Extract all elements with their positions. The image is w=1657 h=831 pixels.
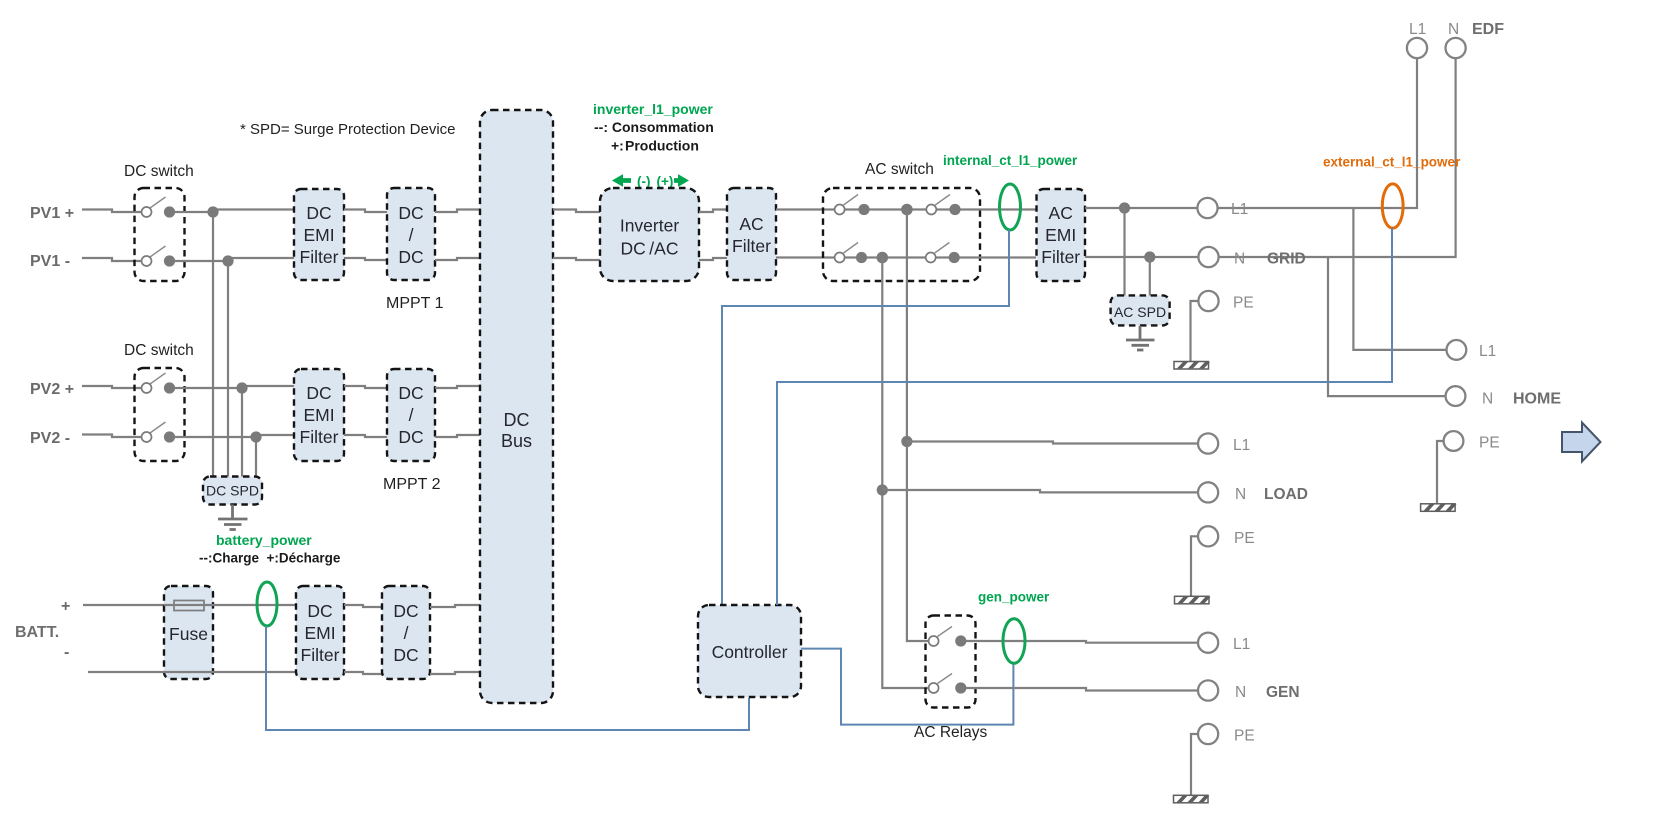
wire GRID PE to earth [1191,301,1199,361]
svg-text:Controller: Controller [712,642,788,662]
terminal GRID L1 [1197,198,1217,218]
switch S1a wire [174,211,213,213]
fuse F1 box [164,586,213,679]
wire L1 to AC SPD [1123,208,1125,296]
relay 1 pole [929,636,939,646]
svg-text:N: N [1448,21,1459,38]
svg-text:HOME: HOME [1513,391,1561,408]
svg-text:Filter: Filter [300,427,339,447]
wire fuse to EMI3 [213,604,296,606]
junction PV2+ [236,382,247,393]
CT battery_power [257,582,277,626]
svg-text:GEN: GEN [1266,684,1300,701]
svg-text:Bus: Bus [501,431,532,451]
switch S2b contact [164,431,175,442]
switch ACa contact [858,204,869,215]
svg-text:DC: DC [504,410,530,430]
junction AC SPD N [1144,251,1155,262]
switch ACd contact [949,252,960,263]
terminal HOME N [1446,386,1466,406]
wire to LOAD L1 [907,442,1198,444]
terminal GRID PE [1198,291,1218,311]
terminal GEN N [1198,680,1218,700]
svg-text:EMI: EMI [303,225,334,245]
terminal LOAD PE [1198,526,1218,546]
svg-text:L1: L1 [1233,437,1250,454]
wire AC EMI to GRID N [1085,256,1198,258]
switch S2a wire [174,387,242,389]
svg-text:DC: DC [306,383,331,403]
svg-text:PV1 +: PV1 + [30,205,74,222]
svg-text:* SPD= Surge Protection Device: * SPD= Surge Protection Device [240,121,456,138]
relay 2 wire [966,688,1198,691]
wire DCDC1 to DC bus top [435,210,480,213]
svg-text:(+): (+) [657,174,674,189]
wire DC bus to inverter bottom [553,258,600,260]
svg-text:internal_ct_l1_power: internal_ct_l1_power [943,153,1078,168]
relay 2 arm [938,674,953,684]
wire N to AC SPD [1149,257,1151,296]
svg-text:PE: PE [1234,530,1255,547]
AC filter box [727,188,776,280]
junction AC SPD L1 [1119,202,1130,213]
terminal EDF L1 [1407,38,1427,58]
DC/DC converter 3 box [382,586,430,679]
wire AC filter to AC switch top [776,208,836,210]
svg-text:L1: L1 [1233,636,1250,653]
wire DC bus to inverter top [553,210,600,213]
wire EMI2 to DCDC2 bottom [344,435,387,437]
CT external_ct_l1_power [1382,184,1403,228]
DC SPD box [203,477,262,505]
AC switch box [823,188,980,281]
svg-text:AC: AC [739,214,763,234]
wire GEN PE to earth [1191,734,1198,795]
svg-text:Filter: Filter [301,645,340,665]
terminal LOAD L1 [1198,433,1218,453]
wire BATT- [88,671,296,673]
svg-text:DC /AC: DC /AC [621,239,679,259]
switch S1a pole [142,207,152,217]
svg-text:MPPT 1: MPPT 1 [386,295,444,312]
svg-text:L1: L1 [1231,201,1248,218]
wire PV2+ drop to DC SPD [241,388,243,477]
svg-text:Filter: Filter [1041,247,1080,267]
wire DCDC2 to DC bus bottom [435,435,480,437]
earth LOAD PE [1175,596,1211,604]
DC/DC converter 1 box [387,188,435,280]
wire AC filter to AC switch bottom [776,256,836,258]
svg-text:AC: AC [1049,203,1073,223]
svg-text:Filter: Filter [300,247,339,267]
switch S2b pole [142,432,152,442]
terminal HOME PE [1444,431,1464,451]
svg-text:PV2 +: PV2 + [30,381,74,398]
svg-text:EMI: EMI [1045,225,1076,245]
terminal LOAD N [1198,482,1218,502]
earth HOME PE [1421,504,1457,512]
svg-text:PE: PE [1233,295,1254,312]
switch S2a pole [142,383,152,393]
switch S1b arm [150,246,166,257]
svg-text:battery_power: battery_power [216,532,312,548]
wire DCDC2 to DC bus top [435,386,480,388]
junction AC top center [901,204,913,216]
switch S2b arm [150,422,166,433]
switch S1b wire [174,260,228,262]
wire PV1- drop to DC SPD [227,261,229,477]
wire EMI3 to DCDC3 top [344,605,382,607]
svg-text:PE: PE [1479,435,1500,452]
relay 2 contact [955,682,966,693]
switch ACa pole [835,205,845,215]
arrow to home [1562,423,1601,462]
switch ACc contact [856,252,867,263]
label direction arrows [612,174,689,187]
svg-text:DC: DC [398,427,423,447]
terminal GRID N [1198,247,1218,267]
svg-text:L1: L1 [1479,343,1496,360]
wire HOME PE to earth [1437,441,1444,503]
svg-text:AC SPD: AC SPD [1114,304,1166,320]
svg-text:EDF: EDF [1472,21,1504,38]
wire PV1+ to EMI filter 1 [213,210,294,213]
svg-text:DC: DC [393,645,418,665]
wire blue battery CT to controller [266,626,749,730]
junction LOAD N [877,484,888,495]
svg-text:DC SPD: DC SPD [206,483,259,499]
switch ACb pole [926,205,936,215]
switch S2b wire [174,436,256,438]
wire blue controller to gen CT [801,649,1013,725]
DC/DC converter 2 box [387,369,435,461]
svg-text:DC switch: DC switch [124,342,194,359]
svg-text:N: N [1235,684,1246,701]
CT internal_ct_l1_power [1000,184,1021,230]
switch ACc arm [844,243,859,254]
wire PV1+ drop to DC SPD [212,212,214,477]
earth GRID PE [1174,362,1210,370]
svg-text:BATT.: BATT. [15,624,59,641]
DC switch S2 box [135,368,185,461]
switch ACb contact [949,204,960,215]
AC SPD box [1111,295,1170,325]
wire branch L1 to HOME L1 [1353,208,1446,350]
wire PV2- stub [82,435,141,438]
switch S2a arm [150,373,166,384]
wire GRID N to EDF N [1218,58,1456,257]
wire GRID L1 to EDF L1 [1218,58,1417,208]
svg-text:EMI: EMI [304,623,335,643]
DC Bus box [480,110,553,703]
svg-text:gen_power: gen_power [978,590,1050,605]
DC EMI filter 2 box [294,369,344,461]
svg-text:DC: DC [307,601,332,621]
svg-text:--:Charge +:Décharge: --:Charge +:Décharge [199,551,341,566]
svg-text:LOAD: LOAD [1264,486,1308,503]
svg-text:-: - [64,644,69,661]
svg-text:AC switch: AC switch [865,161,934,178]
earth GEN PE [1174,795,1210,803]
wire BATT+ stub [83,604,164,606]
junction AC bottom [877,252,889,264]
DC EMI filter 1 box [294,189,344,280]
wire branch N to HOME N [1328,257,1446,396]
wire PV1- to EMI filter 1 [228,258,294,261]
wire DCDC3 to DC bus top [430,605,480,607]
relay 1 arm [938,627,953,637]
svg-text:PV2 -: PV2 - [30,430,70,447]
svg-text:DC: DC [306,203,331,223]
switch S2a contact [164,382,175,393]
terminal GEN PE [1198,724,1218,744]
controller box [698,605,801,697]
svg-text:N: N [1482,391,1493,408]
terminal HOME L1 [1447,340,1467,360]
svg-text:external_ct_l1_power: external_ct_l1_power [1323,155,1461,170]
svg-text:N: N [1234,251,1245,268]
relay 2 pole [929,683,939,693]
wire EMI3 to DCDC3 bottom [344,672,382,674]
svg-text:DC switch: DC switch [124,163,194,180]
switch S1b pole [142,256,152,266]
switch ACd pole [926,253,936,263]
junction LOAD L1 [901,436,912,447]
wire PV2+ stub [82,386,141,388]
relay 1 contact [955,635,966,646]
relay 1 wire [966,641,1198,643]
wire LOAD PE to earth [1191,536,1198,596]
inverter DC/AC box [600,188,699,281]
svg-text:Filter: Filter [732,236,771,256]
svg-text:+: + [61,598,70,615]
terminal GEN L1 [1198,633,1218,653]
junction PV2- [250,431,261,442]
wire EMI2 to DCDC2 top [344,386,387,388]
wire EMI1 to DCDC1 bottom [344,258,387,260]
terminal EDF N [1446,38,1466,58]
svg-text:--: Consommation: --: Consommation [594,119,714,135]
svg-text:EMI: EMI [303,405,334,425]
switch ACc pole [835,253,845,263]
switch S1b contact [164,255,175,266]
wire DCDC3 to DC bus bottom [430,672,480,674]
svg-text:+: Production: +: Production [611,138,699,154]
AC switch bottom row wire [844,256,1036,258]
wire AC EMI to GRID L1 [1085,207,1198,209]
wire inverter to AC filter top [699,210,727,213]
junction PV1- [222,255,233,266]
AC switch top row wire [844,208,1036,210]
CT gen_power [1003,619,1025,664]
wire PV1+ stub [82,210,141,213]
svg-text:/: / [409,225,414,245]
svg-text:PV1 -: PV1 - [30,253,70,270]
svg-text:AC Relays: AC Relays [914,724,987,741]
switch ACa arm [844,195,859,206]
svg-text:/: / [404,623,409,643]
AC EMI filter box [1037,189,1086,281]
junction PV1+ [207,206,218,217]
svg-text:inverter_l1_power: inverter_l1_power [593,101,713,117]
wire DCDC1 to DC bus bottom [435,258,480,260]
wire PV1- stub [82,258,141,261]
wire PV2- drop to DC SPD [255,437,257,477]
wire blue external CT to controller [777,228,1392,605]
switch ACb arm [935,195,950,206]
svg-text:DC: DC [398,383,423,403]
svg-text:Fuse: Fuse [169,624,208,644]
svg-text:Inverter: Inverter [620,216,679,236]
switch ACd arm [935,243,950,254]
wire EMI1 to DCDC1 top [344,210,387,213]
svg-text:DC: DC [393,601,418,621]
svg-text:L1: L1 [1409,21,1426,38]
wire PV2- to EMI filter 2 [256,435,294,437]
svg-text:MPPT 2: MPPT 2 [383,476,441,493]
svg-text:PE: PE [1234,728,1255,745]
svg-text:GRID: GRID [1267,251,1306,268]
wire vertical A from AC switch to relay 1 [907,210,929,642]
svg-text:/: / [409,405,414,425]
wire PV2+ to EMI filter 2 [242,386,294,388]
wire to LOAD N [882,490,1198,492]
switch S1a contact [164,206,175,217]
DC EMI filter 3 box [296,586,344,679]
switch S1a arm [150,197,166,208]
wire blue internal CT to controller [722,230,1009,605]
AC relays box [926,616,976,708]
wire vertical B from AC switch to relay 2 [882,258,929,689]
svg-text:DC: DC [398,247,423,267]
DC switch S1 box [135,188,185,281]
wire inverter to AC filter bottom [699,258,727,260]
svg-text:(-): (-) [637,174,651,189]
ground below DC SPD [218,505,248,530]
svg-text:N: N [1235,486,1246,503]
svg-text:DC: DC [398,203,423,223]
fuse F1 symbol [174,601,204,611]
ground below AC SPD [1126,326,1155,350]
